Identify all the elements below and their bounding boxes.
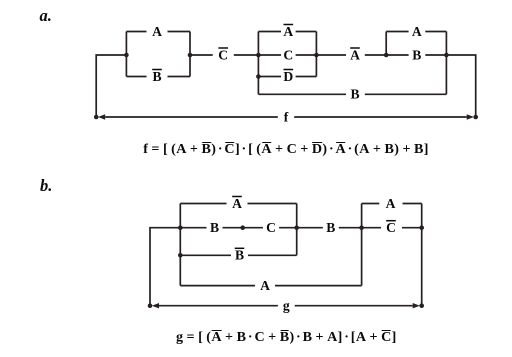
wire: to contact D-bar [258,76,281,78]
wire: group1b to series contact B [297,227,323,229]
wire: contact B to contact C [223,227,263,229]
wire: g measure line left segment [159,305,278,307]
contact C-bar (group2b) [386,220,396,235]
wire: contact A to group1 right bracket [168,31,191,33]
wire: f measure line left segment [105,116,278,118]
wire: series A-bar to group3 [365,54,386,56]
node: g measure right end [419,303,424,308]
node: g measure left end [148,303,153,308]
svg-text:C: C [266,220,276,235]
svg-text:B: B [412,47,421,62]
contact C (group1b middle) [266,220,276,235]
formula g [176,330,397,344]
contact B-bar (group1b bottom) [235,248,245,263]
wire: to contact A-bar [258,31,281,33]
wire: A-wrap branch right part [275,285,362,287]
wire: g measure line right segment [295,305,413,307]
wire: contact A-bar to right bracket [248,203,297,205]
node: group2b left terminal [359,225,364,230]
formula f [143,142,429,156]
svg-text:C: C [218,47,228,62]
svg-text:B: B [210,220,219,235]
wire: contact C-bar to right bracket [402,227,422,229]
svg-text:A: A [260,278,270,293]
wire: top branch to contact A [126,31,146,33]
wire: group2 to series contact A-bar [316,54,346,56]
svg-text:C: C [386,220,396,235]
node: f measure right end [473,115,478,120]
node: group1b left terminal [178,225,183,230]
node: group2b right terminal [419,225,424,230]
wire: input node down-left to f baseline [96,55,126,117]
svg-text:A: A [152,24,162,39]
wire: contact A-bar to right bracket [296,31,317,33]
wire: group3 right bracket down to B-wrap [445,32,447,95]
wire: contact D-bar to right bracket [296,76,317,78]
contact B (parallel wrap branch) [350,87,359,102]
wire: group3 left bracket [385,32,387,56]
wire: to contact B [180,227,206,229]
svg-text:C: C [283,47,293,62]
wire: to contact A-bar [180,203,226,205]
arrowhead: f measure right [467,114,474,119]
contact B (group3 bottom) [412,47,421,62]
svg-text:B: B [350,87,359,102]
svg-text:f: f [284,109,289,124]
node: f measure left end [94,115,99,120]
contact C (group2 middle) [283,47,293,62]
wire: group1 to contact C-bar [190,54,213,56]
svg-text:g: g [283,298,290,313]
wire: bottom branch to contact B-bar [126,76,146,78]
node: group2 left terminal [256,53,261,58]
svg-text:A: A [386,196,396,211]
wire: contact C to right bracket [279,227,297,229]
node: group2 right terminal [314,53,319,58]
label g [283,298,290,313]
contact A-bar (group1b top) [232,196,242,211]
svg-text:A: A [350,47,360,62]
contact A (parallel wrap branch) [260,278,270,293]
node: group1 right terminal [188,53,193,58]
wire: series B to group2b [339,227,362,229]
wire: to contact B [386,54,408,56]
label b. [40,178,52,195]
label f [284,109,289,124]
wire: to contact C-bar [362,227,381,229]
wire: input node down-left to g baseline [150,228,180,306]
wire: A-wrap branch left part [180,285,255,287]
contact B-bar (group1 bottom) [152,69,162,84]
wire: contact C to right bracket [296,54,317,56]
node: group1b left at B-bar branch [178,253,183,258]
wire: group1 left bracket [125,32,127,77]
wire: contact A to group2b right bracket [403,203,422,205]
wire: f measure line right segment [294,116,467,118]
contact B (group1b middle) [210,220,219,235]
contact D-bar (group2 bottom) [283,69,293,84]
node: group2 left at D-bar branch [256,74,261,79]
wire: contact B-bar to right bracket [248,254,297,256]
contact A (group2b top) [386,196,396,211]
contact A-bar (group2 top) [283,24,293,39]
wire: B-wrap branch right part [365,93,447,95]
node: group1b right terminal [294,225,299,230]
wire: contact C-bar to group2 [234,54,259,56]
contact A-bar (series) [350,47,360,62]
contact B (series) [326,220,335,235]
svg-text:B: B [152,69,161,84]
node: junction between B and C [240,225,245,230]
svg-text:A: A [412,24,422,39]
svg-text:B: B [235,248,244,263]
svg-text:D: D [283,69,293,84]
label a. [40,8,52,25]
wire: group1b left bracket down to A-wrap [179,204,181,286]
svg-text:B: B [326,220,335,235]
wire: group1b right bracket [296,204,298,256]
wire: group1 right bracket [189,32,191,77]
wire: to contact A [362,203,380,205]
contact C-bar (series) [218,47,228,62]
wire: group2b right bracket down to g baseline [421,204,423,306]
contact A (group3 top) [412,24,422,39]
arrowhead: g measure left [152,303,159,308]
wire: contact A to group3 right bracket [425,31,446,33]
wire: group2 right bracket [315,32,317,77]
wire: B-wrap branch left part [258,93,346,95]
wire: group2b left bracket down to A-wrap [361,204,363,286]
arrowhead: g measure right [413,303,420,308]
arrowhead: f measure left [98,114,105,119]
node: group3 left terminal [384,53,389,58]
wire: output to down-right to f baseline [446,55,475,117]
wire: contact B-bar to group1 right bracket [168,76,191,78]
contact A (group1 top) [152,24,162,39]
wire: to contact B-bar [180,254,231,256]
wire: group2 left bracket down to B-wrap [257,32,259,95]
wire: to contact C [258,54,281,56]
svg-text:A: A [283,24,293,39]
node: group3 right terminal / output junction [444,53,449,58]
node: group1 left terminal [124,53,129,58]
svg-text:A: A [232,196,242,211]
wire: to contact A [386,31,408,33]
wire: contact B to group3 right bracket [425,54,446,56]
